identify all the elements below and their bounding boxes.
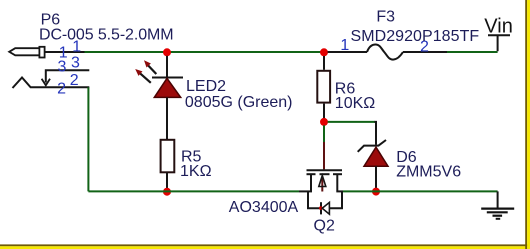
svg-text:AO3400A: AO3400A (229, 199, 299, 216)
LED2 cathode bar (152, 77, 183, 79)
node junction dot gate node (320, 118, 328, 126)
svg-text:LED2: LED2 (186, 78, 226, 95)
Q2 drain contact cap (333, 173, 342, 175)
fuse F3 pin 2 stub (403, 51, 447, 53)
node junction dot at R6 tap (320, 48, 328, 56)
ground bar 2 (487, 211, 508, 213)
ground bar 3 (493, 215, 503, 217)
ground bar 4 (496, 218, 501, 220)
wire bottom rail left (88, 190, 299, 192)
wire gate node to D6 (328, 121, 375, 123)
connector P6 barrel symbol (9, 47, 44, 58)
wire bottom rail right (343, 190, 498, 192)
node body diode red speck (319, 206, 323, 210)
D6 cathode pin corner (375, 122, 377, 145)
svg-text:SMD2920P185TF: SMD2920P185TF (351, 28, 480, 45)
svg-text:Q2: Q2 (314, 218, 335, 235)
P6 pin 1 stub (45, 51, 85, 53)
svg-text:3: 3 (58, 58, 67, 75)
port Vin underline (488, 34, 510, 36)
resistor R6 top pin (323, 56, 325, 70)
zener D6 cathode bar with bent ends (358, 140, 386, 152)
LED2 anode pin (166, 56, 168, 78)
zener D6 triangle (364, 147, 388, 166)
wire left vertical from jack pin 2 (87, 87, 89, 191)
svg-text:2: 2 (70, 72, 79, 89)
resistor R5 body (161, 140, 175, 173)
svg-text:DC-005 5.5-2.0MM: DC-005 5.5-2.0MM (39, 27, 173, 44)
node junction dot D6 to rail (372, 188, 380, 196)
svg-text:F3: F3 (376, 9, 395, 26)
R5 bottom pin (166, 173, 168, 189)
P6 pin 3 line (46, 70, 90, 82)
border right dark (525, 0, 527, 249)
Q2 left stem (310, 174, 312, 190)
ground stem (497, 191, 499, 208)
border bottom dark (0, 244, 530, 246)
ground bar 1 (481, 208, 514, 210)
P6 switch lever and pin 2 line (13, 78, 90, 89)
svg-text:10KΩ: 10KΩ (335, 95, 375, 112)
Q2 body arrow stem (maroon) (321, 177, 323, 192)
Q2 source loop right (329, 192, 342, 209)
R6 bottom pin (323, 104, 325, 119)
svg-text:1KΩ: 1KΩ (180, 163, 212, 180)
D6 anode pin (375, 166, 377, 188)
Q2 body diode cathode bar (320, 202, 322, 214)
border bottom yellow (0, 246, 530, 249)
P6 switch arrow (42, 79, 50, 86)
svg-text:1: 1 (340, 37, 349, 54)
port Vin stub (497, 35, 499, 51)
Q2 body arrow (319, 176, 326, 187)
wire top net left (85, 51, 325, 53)
resistor R6 body (317, 71, 330, 103)
LED2 emission arrow 1 (148, 65, 157, 74)
svg-text:0805G (Green): 0805G (Green) (185, 94, 293, 111)
wire top net right (447, 51, 498, 53)
border right yellow (527, 0, 530, 249)
fuse F3 pin 1 stub (328, 51, 367, 53)
Q2 body contact cap (320, 173, 330, 175)
Q2 source contact cap (307, 173, 316, 175)
wire rail black segment to Q2 source (299, 190, 312, 192)
fuse F3 body squiggle (367, 44, 403, 59)
Q2 body diode triangle (322, 202, 329, 214)
Q2 gate pin (maroon) (323, 142, 325, 169)
svg-text:ZMM5V6: ZMM5V6 (396, 163, 461, 180)
node junction dot at LED tap (163, 48, 171, 56)
transistor Q2 gate bar (307, 169, 343, 171)
node junction dot R5 to rail (163, 188, 171, 196)
svg-text:3: 3 (71, 54, 80, 71)
svg-text:2: 2 (57, 81, 66, 98)
LED2 emission arrow 2 (140, 73, 151, 83)
Q2 source loop left (308, 191, 320, 209)
wire gate node down (green) (323, 125, 325, 142)
wire rail black segment from Q2 drain (336, 190, 343, 192)
Q2 right stem (336, 174, 338, 190)
svg-text:Vin: Vin (484, 15, 513, 37)
LED2 triangle (154, 78, 180, 97)
LED2 cathode lead down to R5 (166, 97, 168, 139)
